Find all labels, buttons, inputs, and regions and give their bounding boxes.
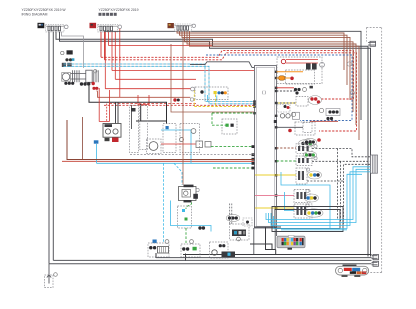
- svg-text:YZ250FX/YZ250FXK 2019 W: YZ250FX/YZ250FXK 2019 W: [22, 8, 67, 12]
- svg-text:IRING DIAGRAM: IRING DIAGRAM: [22, 12, 48, 16]
- svg-text:YZ250FX/YZ250FXK 2019: YZ250FX/YZ250FXK 2019: [99, 8, 139, 12]
